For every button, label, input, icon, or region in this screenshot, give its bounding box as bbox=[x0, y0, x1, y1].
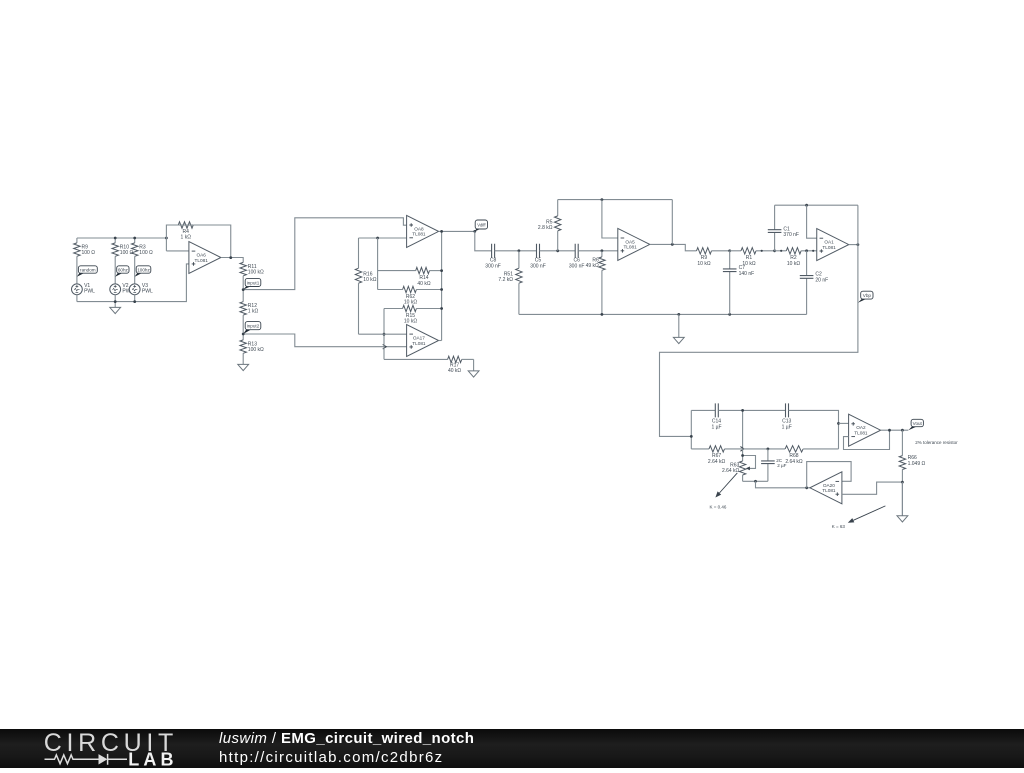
svg-text:10 kΩ: 10 kΩ bbox=[363, 277, 376, 283]
svg-text:2 µF: 2 µF bbox=[777, 463, 786, 468]
wire OA6 output bbox=[221, 257, 243, 259]
node flag Vout bbox=[908, 419, 923, 430]
resistor R10 bbox=[112, 238, 134, 284]
svg-text:2% tolerance resistor: 2% tolerance resistor bbox=[915, 440, 958, 445]
junction bbox=[229, 256, 232, 259]
wire notch right edge bbox=[789, 410, 839, 449]
svg-text:2.64 kΩ: 2.64 kΩ bbox=[708, 459, 726, 465]
junction bbox=[114, 300, 117, 303]
wire to OA17 inverting input bbox=[359, 333, 407, 335]
wire output bus bbox=[441, 231, 443, 340]
ground bbox=[897, 482, 908, 522]
wire OA20 + to divider bbox=[842, 482, 903, 494]
wire bbox=[134, 295, 136, 302]
capacitor C14 bbox=[711, 403, 721, 430]
wire to OA5 inverting input bbox=[602, 200, 618, 238]
junction bbox=[133, 237, 136, 240]
svg-text:K = 0.46: K = 0.46 bbox=[710, 505, 727, 510]
junction bbox=[805, 204, 808, 207]
svg-text:TL081: TL081 bbox=[195, 258, 209, 263]
resistor R67 bbox=[691, 446, 742, 465]
resistor R66 bbox=[899, 430, 925, 482]
node flag Vbp bbox=[858, 291, 873, 303]
svg-text:K = 63: K = 63 bbox=[832, 524, 846, 529]
resistor R6 bbox=[586, 251, 606, 315]
junction bbox=[165, 237, 168, 240]
svg-text:input2: input2 bbox=[247, 323, 260, 328]
node flag Vdiff bbox=[475, 220, 488, 231]
ground bbox=[238, 353, 249, 370]
svg-text:Vdiff: Vdiff bbox=[477, 222, 486, 227]
resistor R4 bbox=[178, 222, 193, 241]
resistor R17 bbox=[384, 356, 474, 374]
junction bbox=[901, 481, 904, 484]
wire bbox=[718, 409, 785, 411]
junction bbox=[728, 313, 731, 316]
node flag input1 bbox=[243, 278, 261, 289]
pin bbox=[761, 250, 763, 252]
junction bbox=[601, 313, 604, 316]
wire OA2 output bbox=[881, 429, 909, 431]
resistor R12 bbox=[240, 290, 258, 334]
wire bbox=[377, 238, 379, 290]
svg-text:10 kΩ: 10 kΩ bbox=[697, 261, 710, 267]
resistor R14 bbox=[378, 267, 442, 286]
junction bbox=[601, 198, 604, 201]
svg-text:7.2 kΩ: 7.2 kΩ bbox=[498, 277, 513, 283]
potentiometer R63 bbox=[722, 449, 756, 481]
wire notch bottom bbox=[743, 480, 768, 482]
wire OA2 feedback loop bbox=[844, 430, 890, 449]
resistor R2 bbox=[775, 248, 817, 267]
svg-text:OA5: OA5 bbox=[625, 239, 635, 244]
junction bbox=[114, 237, 117, 240]
junction bbox=[376, 237, 379, 240]
wire Vbp down to notch input bbox=[660, 205, 858, 436]
capacitor C2 bbox=[800, 251, 828, 315]
capacitor C8 bbox=[485, 244, 501, 269]
node flag 100hz bbox=[135, 266, 151, 277]
svg-text:100 Ω: 100 Ω bbox=[82, 250, 96, 256]
voltage source V3 bbox=[129, 283, 153, 295]
junction bbox=[671, 243, 674, 246]
svg-text:100 kΩ: 100 kΩ bbox=[248, 347, 264, 353]
op-amp OA8 bbox=[407, 215, 439, 247]
svg-text:OA17: OA17 bbox=[413, 336, 425, 341]
wire input1 to OA8 + bbox=[243, 218, 406, 290]
resistor R5 bbox=[538, 200, 561, 251]
svg-text:1.049 Ω: 1.049 Ω bbox=[908, 461, 926, 467]
node flag input2 bbox=[243, 322, 261, 334]
wire bbox=[383, 309, 385, 360]
svg-text:100 kΩ: 100 kΩ bbox=[248, 269, 264, 275]
svg-text:input1: input1 bbox=[247, 280, 260, 285]
resistor R68 bbox=[743, 446, 839, 465]
svg-text:10 kΩ: 10 kΩ bbox=[742, 261, 755, 267]
svg-text:OA20: OA20 bbox=[823, 483, 835, 488]
capacitor C1 bbox=[768, 205, 799, 251]
junction bbox=[837, 422, 840, 425]
ground bbox=[110, 302, 121, 314]
svg-text:TL081: TL081 bbox=[822, 245, 836, 250]
resistor R16 bbox=[355, 238, 376, 334]
capacitor C7 bbox=[723, 251, 754, 315]
ground bbox=[673, 314, 684, 343]
wire bbox=[578, 250, 618, 252]
svg-text:10 kΩ: 10 kΩ bbox=[404, 300, 417, 306]
junction bbox=[690, 435, 693, 438]
svg-text:Vbp: Vbp bbox=[863, 293, 872, 298]
pin bbox=[780, 250, 782, 252]
svg-text:random: random bbox=[80, 267, 96, 272]
junction bbox=[677, 313, 680, 316]
svg-text:100hz: 100hz bbox=[137, 267, 150, 272]
svg-text:140 nF: 140 nF bbox=[739, 271, 755, 277]
svg-text:300 nF: 300 nF bbox=[530, 263, 546, 269]
wire ground rail to OA6 + bbox=[77, 264, 189, 302]
op-amp OA6 bbox=[189, 242, 221, 274]
svg-text:10 kΩ: 10 kΩ bbox=[404, 319, 417, 325]
junction bbox=[601, 249, 604, 252]
wire OA1 feedback rail bbox=[775, 204, 858, 206]
junction bbox=[473, 230, 476, 233]
op-amp OA20 bbox=[810, 472, 842, 504]
wire OA1 output bbox=[849, 244, 858, 246]
wire to OA8 inverting input bbox=[359, 237, 407, 239]
wire to OA2 + bbox=[839, 422, 849, 424]
node flag 60hz bbox=[115, 266, 129, 277]
wire bbox=[114, 295, 116, 302]
wire bbox=[540, 250, 576, 252]
capacitor C13 bbox=[782, 403, 792, 430]
wire feedback down bbox=[671, 200, 673, 245]
svg-text:100 Ω: 100 Ω bbox=[139, 250, 153, 256]
junction bbox=[741, 454, 744, 457]
wire ground rail bbox=[519, 313, 807, 315]
svg-text:PWL: PWL bbox=[142, 288, 153, 294]
wire OA17 output bbox=[439, 340, 442, 342]
junction bbox=[556, 249, 559, 252]
wire bbox=[76, 295, 78, 302]
svg-text:1 kΩ: 1 kΩ bbox=[248, 309, 259, 315]
resistor R15 bbox=[384, 305, 442, 324]
wire OA20 feedback loop bbox=[807, 462, 851, 488]
wire R4 feedback left bbox=[166, 225, 178, 251]
capacitor C6 bbox=[569, 244, 585, 269]
svg-text:2.64 kΩ: 2.64 kΩ bbox=[785, 459, 803, 465]
junction bbox=[440, 288, 443, 291]
ground bbox=[468, 359, 479, 377]
wire bbox=[691, 409, 715, 411]
svg-text:OA2: OA2 bbox=[856, 425, 866, 430]
svg-text:OA6: OA6 bbox=[197, 253, 207, 258]
op-amp OA5 bbox=[618, 228, 650, 260]
capacitor 2C bbox=[761, 449, 787, 481]
voltage source V2 bbox=[110, 283, 134, 295]
junction bbox=[754, 480, 757, 483]
resistor R9b bbox=[697, 248, 730, 267]
resistor R11 bbox=[240, 258, 264, 290]
wire OA8 output bbox=[439, 230, 475, 232]
wire OA5 feedback rail bbox=[558, 199, 673, 201]
wire hop bbox=[740, 447, 744, 452]
wire OA5 output bbox=[650, 244, 697, 250]
resistor R13 bbox=[240, 334, 264, 353]
svg-text:OA8: OA8 bbox=[414, 226, 424, 231]
resistor R51 bbox=[498, 251, 522, 315]
op-amp OA2 bbox=[849, 414, 881, 446]
footer bar bbox=[0, 729, 1024, 768]
op-amp OA17 bbox=[407, 325, 439, 357]
junction bbox=[741, 409, 744, 412]
junction bbox=[857, 243, 860, 246]
junction bbox=[133, 300, 136, 303]
junction bbox=[242, 333, 245, 336]
svg-text:40 kΩ: 40 kΩ bbox=[417, 281, 430, 287]
svg-text:300 nF: 300 nF bbox=[485, 263, 501, 269]
junction bbox=[767, 448, 770, 451]
svg-text:1 µF: 1 µF bbox=[782, 424, 792, 430]
junction bbox=[901, 429, 904, 432]
wire Vdiff to C8 bbox=[475, 231, 492, 250]
junction bbox=[440, 230, 443, 233]
pin bbox=[812, 250, 814, 252]
wire bbox=[495, 250, 537, 252]
junction bbox=[518, 249, 521, 252]
wire input summing rail bbox=[77, 237, 166, 239]
svg-text:Vout: Vout bbox=[913, 421, 923, 426]
svg-text:LAB: LAB bbox=[128, 749, 173, 768]
wire hop bbox=[383, 344, 387, 349]
junction bbox=[242, 288, 245, 291]
capacitor C5 bbox=[530, 244, 546, 269]
svg-text:60hz: 60hz bbox=[118, 267, 129, 272]
svg-text:1 µF: 1 µF bbox=[711, 424, 721, 430]
svg-text:TL081: TL081 bbox=[822, 488, 836, 493]
node flag random bbox=[77, 266, 97, 277]
resistor R62 bbox=[378, 286, 442, 305]
junction bbox=[888, 429, 891, 432]
wire R4 feedback right bbox=[193, 225, 231, 258]
wire to OA6 inverting input bbox=[166, 250, 189, 252]
svg-text:2.8 kΩ: 2.8 kΩ bbox=[538, 225, 553, 231]
resistor R1 bbox=[730, 248, 775, 267]
svg-text:1 kΩ: 1 kΩ bbox=[181, 234, 192, 240]
annotation arrow K=63 bbox=[848, 506, 886, 523]
svg-text:TL081: TL081 bbox=[854, 431, 868, 436]
junction bbox=[728, 249, 731, 252]
wire notch left edge bbox=[690, 410, 692, 449]
svg-text:TL081: TL081 bbox=[623, 245, 637, 250]
junction bbox=[805, 249, 808, 252]
svg-text:49 kΩ: 49 kΩ bbox=[586, 263, 599, 269]
svg-text:370 nF: 370 nF bbox=[783, 232, 799, 238]
svg-text:20 nF: 20 nF bbox=[815, 277, 828, 283]
junction bbox=[773, 249, 776, 252]
svg-text:OA1: OA1 bbox=[824, 240, 834, 245]
svg-text:TL081: TL081 bbox=[412, 341, 426, 346]
resistor R3 bbox=[132, 238, 154, 284]
wire to OA1 inverting input bbox=[807, 205, 817, 238]
voltage source V1 bbox=[72, 283, 96, 295]
junction bbox=[383, 333, 386, 336]
resistor R9 bbox=[74, 238, 96, 284]
svg-text:300 nF: 300 nF bbox=[569, 263, 585, 269]
annotation arrow K=0.46 bbox=[715, 473, 737, 498]
svg-text:10 kΩ: 10 kΩ bbox=[787, 261, 800, 267]
svg-text:PWL: PWL bbox=[84, 288, 95, 294]
junction bbox=[440, 307, 443, 310]
wire input2 to OA17 + bbox=[243, 334, 406, 347]
svg-text:40 kΩ: 40 kΩ bbox=[448, 368, 461, 374]
wire to ground bbox=[901, 482, 903, 516]
op-amp OA1 bbox=[817, 229, 849, 261]
svg-text:TL081: TL081 bbox=[412, 232, 426, 237]
wire to OA20 output bbox=[756, 481, 810, 488]
junction bbox=[440, 269, 443, 272]
wire mid column bbox=[742, 410, 744, 449]
junction bbox=[805, 486, 808, 489]
